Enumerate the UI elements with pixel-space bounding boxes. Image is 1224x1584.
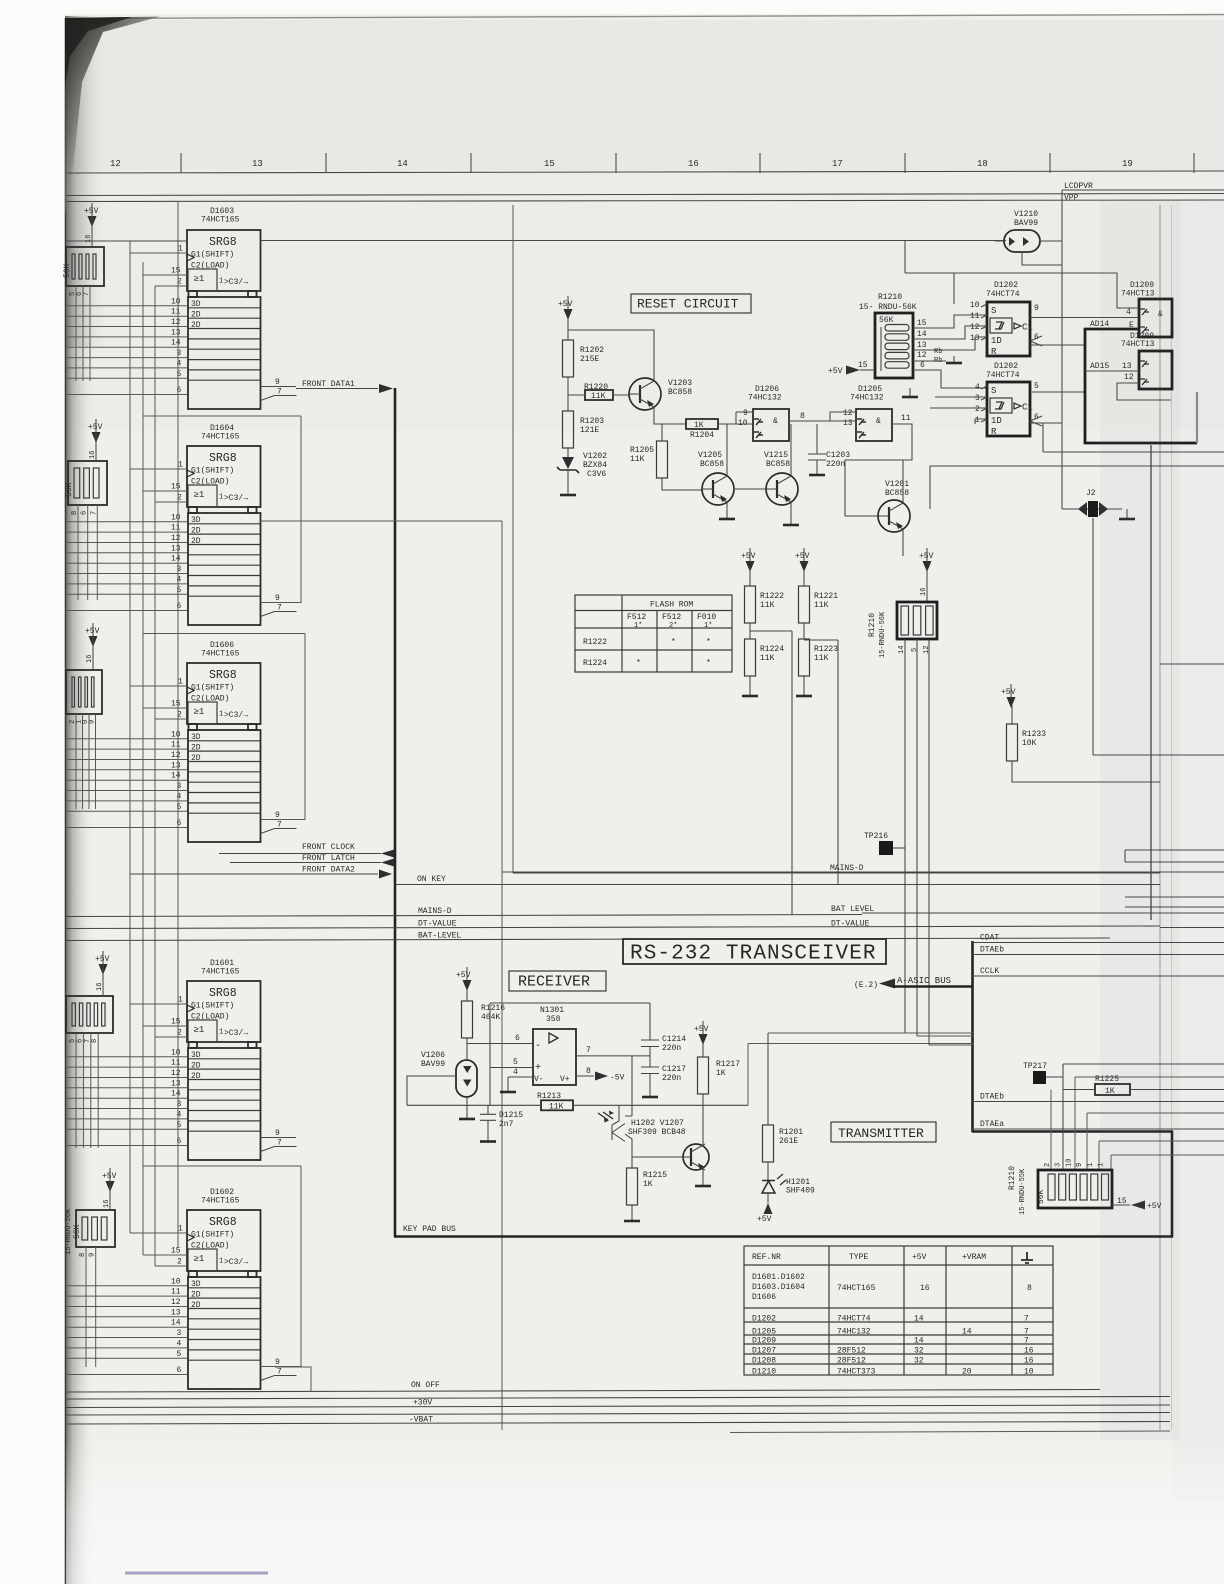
capacitor C1203 220n (808, 424, 850, 469)
svg-text:74HCT165: 74HCT165 (837, 1284, 876, 1293)
RESET CIRCUIT title box (631, 294, 751, 313)
svg-text:16: 16 (1024, 1357, 1034, 1366)
svg-text:4: 4 (177, 792, 182, 801)
svg-text:12: 12 (171, 1069, 181, 1078)
ground (R1215) (624, 1214, 640, 1221)
svg-text:2D: 2D (191, 1062, 201, 1071)
capacitor D1215 2n7 (480, 1105, 523, 1134)
svg-text:74HCT165: 74HCT165 (201, 1197, 240, 1206)
svg-text:11K: 11K (814, 601, 829, 610)
ground (D1215) (480, 1135, 496, 1142)
svg-text:12: 12 (923, 646, 931, 654)
svg-text:+: + (535, 1063, 541, 1074)
svg-text:220n: 220n (662, 1074, 681, 1083)
svg-text:358: 358 (546, 1015, 561, 1024)
svg-text:D1210: D1210 (752, 1368, 776, 1377)
svg-text:74HC132: 74HC132 (837, 1328, 871, 1337)
svg-text:2D: 2D (191, 1072, 201, 1081)
svg-text:CDAT: CDAT (980, 934, 999, 943)
ground (V1207) (695, 1179, 711, 1186)
svg-text:2D: 2D (191, 744, 201, 753)
svg-text:V1202: V1202 (583, 452, 607, 461)
svg-text:N1301: N1301 (540, 1006, 564, 1015)
IC D1603 74HCT165 (171, 207, 297, 409)
svg-text:5: 5 (177, 803, 182, 812)
ruler line (66, 171, 1224, 173)
junction wire to vertical x792 (750, 631, 792, 915)
wires R1210 to D1202 (913, 315, 987, 350)
svg-text:16: 16 (920, 1284, 930, 1293)
resistor R1202 (563, 340, 574, 377)
svg-text:1: 1 (1087, 1163, 1095, 1167)
svg-text:9: 9 (275, 1358, 280, 1367)
wires opamp outputs to connector (768, 1033, 973, 1036)
IC D1604 74HCT165 (171, 424, 297, 625)
svg-text:11K: 11K (549, 1102, 564, 1111)
RS-232 TRANSCEIVER title box (623, 939, 886, 964)
svg-text:2*: 2* (669, 622, 677, 630)
ground (C1214/C1217) (642, 1090, 658, 1097)
svg-text:8: 8 (586, 1067, 591, 1076)
svg-text:6: 6 (177, 1137, 182, 1146)
ground (J2) (1119, 512, 1135, 519)
svg-text:11K: 11K (814, 654, 829, 663)
wires below R1210 middle (905, 639, 929, 1045)
page top edge (65, 15, 1224, 19)
svg-text:DTAEb: DTAEb (980, 946, 1004, 955)
svg-text:KEY PAD BUS: KEY PAD BUS (403, 1225, 456, 1234)
svg-text:6: 6 (515, 1034, 520, 1043)
svg-text:R1222: R1222 (760, 592, 784, 601)
svg-text:12: 12 (171, 751, 181, 760)
transistor V1207 (683, 1144, 709, 1170)
svg-text:1: 1 (178, 461, 183, 470)
svg-text:+5V: +5V (85, 627, 100, 636)
transistor V1215 BC858 (766, 473, 798, 505)
frame double line top (66, 194, 1224, 196)
svg-text:REF.NR: REF.NR (752, 1253, 781, 1262)
svg-text:R1233: R1233 (1022, 730, 1046, 739)
svg-text:1: 1 (178, 1225, 183, 1234)
svg-text:A-ASIC BUS: A-ASIC BUS (897, 976, 951, 986)
ground (D1202 upper R) (902, 390, 918, 397)
wire V1206 loop (407, 1076, 456, 1105)
svg-text:D1208: D1208 (752, 1357, 776, 1366)
svg-text:32: 32 (914, 1347, 924, 1356)
wire V1201 (902, 460, 904, 556)
svg-text:R1215: R1215 (643, 1171, 667, 1180)
svg-text:3: 3 (177, 565, 182, 574)
vertical wire below J2 (1093, 518, 1160, 755)
svg-text:5: 5 (911, 648, 919, 652)
svg-text:2n7: 2n7 (499, 1120, 514, 1129)
svg-text:≥1: ≥1 (194, 707, 205, 717)
svg-text:220n: 220n (662, 1044, 681, 1053)
svg-text:6: 6 (177, 819, 182, 828)
svg-text:4: 4 (177, 575, 182, 584)
svg-text:5: 5 (177, 1350, 182, 1359)
svg-text:2D: 2D (191, 1301, 201, 1310)
resistor network RN2 (56K) (68, 461, 107, 505)
svg-text:7: 7 (586, 1046, 591, 1055)
wire V1215 collector (790, 424, 792, 476)
wire D1202 upper pin10 from top (905, 241, 954, 304)
svg-text:V+: V+ (560, 1075, 570, 1084)
svg-text:1: 1 (219, 711, 223, 719)
svg-text:+VRAM: +VRAM (962, 1253, 986, 1262)
FLASH ROM option table (575, 595, 732, 672)
svg-text:ON KEY: ON KEY (417, 875, 446, 884)
svg-text:261E: 261E (779, 1137, 798, 1146)
svg-text:10: 10 (171, 1277, 181, 1286)
IC D1602 74HCT165 (171, 1188, 297, 1389)
svg-text:14: 14 (171, 1090, 181, 1099)
wire D1202 lower inputs (930, 397, 987, 424)
svg-text:4: 4 (177, 1339, 182, 1348)
long wires right of box (1093, 664, 1224, 755)
wire D1202 lower out 6 (1030, 423, 1062, 452)
svg-text:C3V6: C3V6 (587, 470, 606, 479)
svg-text:1*: 1* (634, 622, 642, 630)
svg-text:+30V: +30V (413, 1399, 432, 1408)
svg-text:RECEIVER: RECEIVER (518, 974, 590, 991)
svg-text:13: 13 (171, 1308, 181, 1317)
svg-text:220n: 220n (826, 460, 845, 469)
svg-text:TP217: TP217 (1023, 1062, 1047, 1071)
memory block box (1085, 329, 1197, 443)
svg-text:28F512: 28F512 (837, 1347, 866, 1356)
ruler tick 6 (1049, 153, 1051, 173)
svg-text:2D: 2D (191, 537, 201, 546)
svg-text:TP216: TP216 (864, 832, 888, 841)
wire +5V to R1202 to R1203 to V1202 (567, 316, 569, 488)
svg-text:74HCT74: 74HCT74 (837, 1315, 871, 1324)
ruler tick 2 (470, 153, 472, 173)
svg-text:FRONT DATA2: FRONT DATA2 (302, 866, 355, 875)
+5V (H1201) (767, 1193, 769, 1203)
svg-text:+5V: +5V (694, 1025, 709, 1034)
svg-text:DTAEb: DTAEb (980, 1093, 1004, 1102)
ground (R1223) (796, 689, 812, 696)
svg-text:10: 10 (171, 730, 181, 739)
vertical wire x1062 (VPP/LCDPWR drop) (1061, 190, 1063, 509)
svg-text:20: 20 (962, 1368, 972, 1377)
svg-text:9: 9 (275, 594, 280, 603)
svg-text:11: 11 (171, 1288, 181, 1297)
svg-text:F512: F512 (662, 613, 681, 622)
IC D1606 74HCT165 (171, 641, 297, 842)
wires V1207 (632, 1144, 703, 1179)
transistor V1203 BC858 (629, 378, 661, 410)
svg-text:14: 14 (962, 1328, 972, 1337)
ground (Rb) (946, 356, 962, 363)
svg-text:15: 15 (171, 1247, 181, 1256)
cascade loop D1603-D1604 (143, 416, 301, 603)
wires above R1210 bottom (1075, 1077, 1224, 1170)
svg-text:3D: 3D (191, 1280, 201, 1289)
wire pin12 loop (1117, 383, 1171, 400)
svg-text:SRG8: SRG8 (209, 987, 237, 1000)
svg-text:5: 5 (177, 1121, 182, 1130)
resistor network RN4 (56K) (66, 996, 113, 1033)
svg-text:F010: F010 (697, 613, 716, 622)
zener V1202 BZX84 C3V6 (557, 452, 607, 479)
svg-text:1: 1 (178, 678, 183, 687)
ground (V1215) (783, 518, 799, 525)
svg-text:12: 12 (171, 534, 181, 543)
bottom extra line (730, 1431, 1170, 1433)
svg-text:+5V: +5V (795, 552, 810, 561)
svg-text:1: 1 (178, 996, 183, 1005)
svg-text:15: 15 (171, 1018, 181, 1027)
svg-text:*: * (706, 659, 711, 668)
svg-text:V1215: V1215 (764, 451, 788, 460)
ruler tick 1 (325, 153, 327, 173)
junction wire to vertical x838 (804, 640, 838, 884)
svg-text:13: 13 (171, 1079, 181, 1088)
resistor R1233 (1007, 724, 1018, 761)
svg-text:RS-232 TRANSCEIVER: RS-232 TRANSCEIVER (630, 943, 877, 966)
svg-text:F512: F512 (627, 613, 646, 622)
svg-text:D1202: D1202 (752, 1315, 776, 1324)
long bus vertical x1151 (1150, 445, 1152, 920)
svg-text:≥1: ≥1 (194, 1254, 205, 1264)
svg-text:2D: 2D (191, 1291, 201, 1300)
svg-text:2D: 2D (191, 754, 201, 763)
svg-text:SRG8: SRG8 (209, 452, 237, 465)
svg-text:+5V: +5V (912, 1253, 927, 1262)
wire H1202 emitter down (625, 1134, 632, 1168)
opamp feedback wire (490, 1003, 650, 1068)
svg-text:6: 6 (177, 602, 182, 611)
svg-text:2: 2 (177, 1258, 182, 1267)
resistor R1216 (462, 1001, 473, 1038)
ruler tick 0 (180, 153, 182, 173)
wire into D1206 (718, 412, 753, 424)
svg-text:D1207: D1207 (752, 1347, 776, 1356)
svg-text:C1214: C1214 (662, 1035, 686, 1044)
svg-text:10: 10 (1024, 1368, 1034, 1377)
svg-text:3: 3 (177, 782, 182, 791)
svg-text:J2: J2 (1086, 489, 1096, 498)
svg-text:74HCT373: 74HCT373 (837, 1368, 876, 1377)
svg-text:R1221: R1221 (814, 592, 838, 601)
svg-text:V1206: V1206 (421, 1051, 445, 1060)
long vertical wire x178 (177, 202, 179, 1247)
svg-text:≥1: ≥1 (194, 1025, 205, 1035)
cascade loop D1601-D1602 (143, 1166, 301, 1367)
resistor R1220 (585, 390, 613, 400)
svg-text:BAV99: BAV99 (421, 1060, 445, 1069)
svg-text:15-RNDU-56K: 15-RNDU-56K (65, 1208, 73, 1255)
svg-text:15-RNDU-56K: 15-RNDU-56K (879, 611, 887, 658)
svg-text:3D: 3D (191, 516, 201, 525)
svg-text:SRG8: SRG8 (209, 1216, 237, 1229)
svg-text:1: 1 (219, 494, 223, 502)
svg-text:MAINS-D: MAINS-D (418, 907, 452, 916)
svg-text:+5V: +5V (95, 955, 110, 964)
svg-text:10: 10 (171, 513, 181, 522)
svg-text:G1(SHIFT): G1(SHIFT) (191, 1002, 234, 1011)
wire V1203 emitter to +5V rail (568, 330, 654, 381)
svg-text:R1204: R1204 (690, 431, 714, 440)
vertical x1063 (1063, 1064, 1224, 1170)
bottom-left black dash (125, 1572, 268, 1575)
svg-text:3: 3 (177, 1100, 182, 1109)
svg-text:9: 9 (1076, 1163, 1084, 1167)
svg-text:13: 13 (171, 544, 181, 553)
svg-text:D1205: D1205 (752, 1328, 776, 1337)
resistor R1215 (627, 1168, 638, 1205)
wire D1202 upper pin11/12/13 stubs (954, 315, 987, 337)
svg-text:R1224: R1224 (760, 645, 784, 654)
svg-text:+5V: +5V (757, 1215, 772, 1224)
svg-text:11: 11 (171, 741, 181, 750)
svg-text:-: - (535, 1041, 541, 1052)
top-left dark corner (65, 17, 160, 216)
svg-text:DTAEa: DTAEa (980, 1120, 1004, 1129)
svg-text:74HCT165: 74HCT165 (201, 968, 240, 977)
capacitor C1217 220n (641, 1065, 686, 1090)
cascade loop D1604-D1606 (143, 634, 305, 820)
svg-text:+5V: +5V (102, 1172, 117, 1181)
svg-text:7: 7 (1024, 1337, 1029, 1346)
svg-text:C1203: C1203 (826, 451, 850, 460)
heavy key-pad bus vertical (394, 388, 397, 1237)
svg-text:V-: V- (534, 1075, 544, 1084)
svg-text:G1(SHIFT): G1(SHIFT) (191, 684, 234, 693)
svg-text:BC858: BC858 (885, 489, 909, 498)
verticals x502/x513 (501, 521, 503, 1430)
svg-text:FRONT LATCH: FRONT LATCH (302, 854, 355, 863)
resistor network RN1 (56K) (66, 247, 104, 286)
control pin vertical buses (130, 241, 155, 1266)
svg-text:11: 11 (171, 524, 181, 533)
heavy bottom rail (394, 1235, 1173, 1238)
svg-text:10: 10 (1065, 1159, 1073, 1167)
svg-text:R1210: R1210 (1008, 1166, 1017, 1190)
LED H1201 SHF409 (762, 1174, 815, 1196)
resistor network RN3 (56K) (66, 670, 102, 714)
svg-text:3: 3 (1055, 1163, 1063, 1167)
svg-text:D1606: D1606 (752, 1293, 776, 1302)
resistor network R1210 (top) 15-RNDU-56K (859, 293, 927, 378)
wire R1220 branch (568, 394, 629, 396)
phototransistor H1202 (598, 1111, 625, 1142)
svg-text:D1601.D1602: D1601.D1602 (752, 1273, 805, 1282)
right frame faint verticals (1159, 205, 1161, 1430)
svg-text:11K: 11K (760, 654, 775, 663)
wire opamp out to H1202 (625, 1056, 632, 1116)
resistor R1201 (763, 1125, 774, 1162)
page left edge shadow (65, 16, 95, 1584)
diode V1210 BAV99 (995, 210, 1062, 265)
svg-text:6: 6 (177, 1366, 182, 1375)
svg-text:10K: 10K (1022, 739, 1037, 748)
svg-text:G1(SHIFT): G1(SHIFT) (191, 1231, 234, 1240)
svg-text:FLASH ROM: FLASH ROM (650, 601, 693, 610)
resistor R1217 (698, 1057, 709, 1094)
svg-text:-5V: -5V (610, 1074, 625, 1083)
svg-text:14: 14 (914, 1337, 924, 1346)
ground (V1202) (560, 488, 576, 495)
wire V1203 collector down to node (654, 407, 686, 424)
svg-text:>C3/→: >C3/→ (224, 1029, 248, 1038)
svg-text:(E.2): (E.2) (854, 981, 878, 990)
resistor network R1210 (bottom) 15-RNDU-55K (1008, 1159, 1112, 1215)
svg-text:+5V: +5V (741, 552, 756, 561)
svg-text:1: 1 (219, 1258, 223, 1266)
svg-text:BZX84: BZX84 (583, 461, 607, 470)
transistor V1201 BC858 (878, 500, 910, 532)
svg-text:2D: 2D (191, 527, 201, 536)
svg-text:2: 2 (1044, 1163, 1052, 1167)
svg-text:D1603.D1604: D1603.D1604 (752, 1283, 805, 1292)
svg-text:BC858: BC858 (766, 460, 790, 469)
svg-text:7: 7 (1024, 1328, 1029, 1337)
svg-text:56K: 56K (1037, 1189, 1046, 1204)
svg-text:15: 15 (171, 700, 181, 709)
svg-text:13: 13 (171, 761, 181, 770)
svg-text:R1224: R1224 (583, 659, 607, 668)
TRANSMITTER title box (831, 1122, 936, 1142)
REF.NR table (744, 1246, 1053, 1377)
wires below box to right (1043, 451, 1224, 453)
svg-text:*: * (706, 638, 711, 647)
svg-text:BC858: BC858 (700, 460, 724, 469)
D1604 output loop to x502 (261, 520, 503, 522)
wire D1202 lower out 5 (1030, 391, 1085, 393)
resistor R1223 (799, 639, 810, 676)
svg-text:V1201: V1201 (885, 480, 909, 489)
svg-text:5: 5 (177, 586, 182, 595)
svg-text:5: 5 (513, 1058, 518, 1067)
svg-text:3D: 3D (191, 1051, 201, 1060)
svg-text:1K: 1K (716, 1069, 726, 1078)
ground (V1206) (459, 1112, 475, 1119)
svg-text:SRG8: SRG8 (209, 669, 237, 682)
resistor R1205 (657, 441, 668, 478)
ground (V1205) (719, 512, 735, 519)
svg-text:9: 9 (275, 1129, 280, 1138)
svg-text:74HCT165: 74HCT165 (201, 433, 240, 442)
long horizontal wire y241 to V1210 (66, 240, 1006, 243)
ruler tick 7 (1193, 153, 1195, 173)
svg-text:SHF309 BCB48: SHF309 BCB48 (628, 1128, 686, 1137)
svg-text:11K: 11K (630, 455, 645, 464)
svg-text:TYPE: TYPE (849, 1253, 868, 1262)
svg-text:8: 8 (1027, 1284, 1032, 1293)
resistor R1224 (745, 639, 756, 676)
svg-text:TRANSMITTER: TRANSMITTER (838, 1126, 924, 1141)
svg-text:74HCT165: 74HCT165 (201, 650, 240, 659)
svg-text:15: 15 (171, 483, 181, 492)
svg-text:≥1: ≥1 (194, 490, 205, 500)
svg-text:3D: 3D (191, 733, 201, 742)
svg-text:D1215: D1215 (499, 1111, 523, 1120)
left data bus wires (66, 253, 187, 1375)
svg-text:>C3/→: >C3/→ (224, 711, 248, 720)
svg-text:R1222: R1222 (583, 638, 607, 647)
svg-text:ON OFF: ON OFF (411, 1381, 440, 1390)
svg-text:G1(SHIFT): G1(SHIFT) (191, 467, 234, 476)
ruler tick 4 (759, 153, 761, 173)
svg-text:1: 1 (219, 1029, 223, 1037)
svg-text:R1223: R1223 (814, 645, 838, 654)
svg-text:+5V: +5V (1001, 688, 1016, 697)
svg-text:1K: 1K (643, 1180, 653, 1189)
svg-text:D1209: D1209 (752, 1337, 776, 1346)
